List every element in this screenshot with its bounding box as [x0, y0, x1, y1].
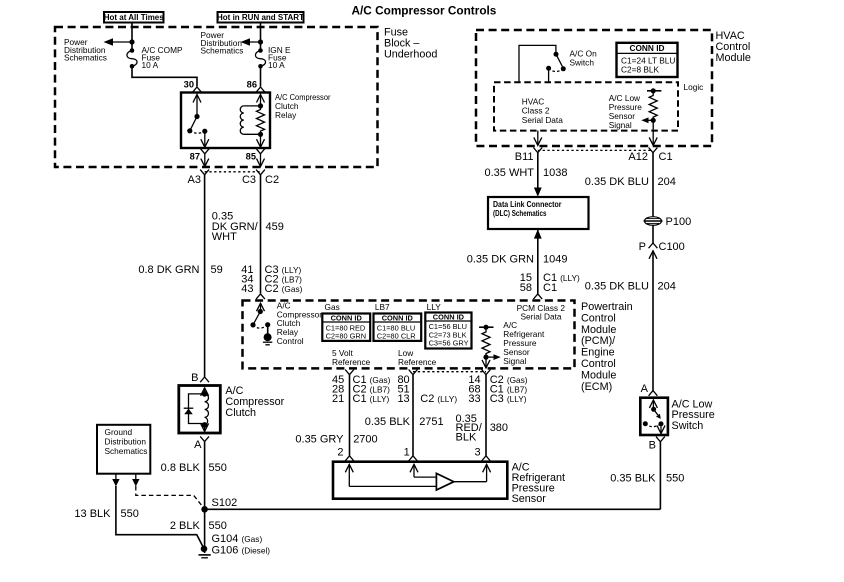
svg-text:C3=56 GRY: C3=56 GRY — [429, 338, 469, 347]
HVAC CONN ID box — [617, 43, 678, 77]
svg-text:Control: Control — [581, 312, 616, 324]
wire: S102 down to ground — [204, 509, 206, 553]
wire: serial data to HVAC pin B11 — [534, 131, 542, 146]
svg-text:0.35 DK GRN: 0.35 DK GRN — [467, 254, 534, 266]
connector fork at sensor pin 3 — [482, 456, 491, 461]
label: HVAC Class 2 Serial Data — [522, 96, 563, 125]
svg-text:550: 550 — [209, 520, 227, 532]
svg-text:A3: A3 — [188, 174, 201, 186]
clutch clamp diode branch — [184, 394, 205, 424]
connector fork A3 — [200, 170, 209, 175]
sensor pin 1 arrow inside — [410, 464, 418, 477]
connector fork at PCM class 2 pin — [533, 294, 542, 299]
clutch pin A arrow inside — [201, 423, 209, 431]
svg-text:BLK: BLK — [456, 431, 477, 443]
svg-text:59: 59 — [211, 264, 223, 276]
label: Power Distribution Schematics (left) — [64, 37, 107, 63]
svg-text:Distribution: Distribution — [105, 437, 147, 447]
wire: resistor to HVAC pin A12 — [649, 120, 657, 145]
svg-text:Control: Control — [716, 41, 751, 53]
fuse: A/C COMP Fuse 10 A — [127, 48, 137, 68]
label: A/C Compressor Clutch Relay Control — [277, 300, 322, 346]
svg-text:B: B — [649, 440, 656, 452]
clutch coil — [202, 391, 209, 428]
svg-text:Module: Module — [716, 52, 751, 64]
svg-text:Serial Data: Serial Data — [522, 115, 563, 125]
wire: pin 85 to fuse block edge — [257, 154, 265, 167]
svg-text:G106 (Diesel): G106 (Diesel) — [212, 545, 271, 557]
connector fork at relay pin 86 — [256, 87, 265, 92]
low pressure switch blade — [643, 407, 664, 427]
svg-text:1: 1 — [404, 447, 410, 459]
PCM/ECM dashed box — [243, 301, 575, 369]
svg-text:0.35 BLK: 0.35 BLK — [365, 416, 411, 428]
svg-text:Sensor: Sensor — [512, 493, 547, 505]
op-amp symbol in sensor — [436, 473, 453, 490]
wire label 0.35 DK GRN/WHT — [212, 211, 259, 244]
label: IGN E Fuse 10 A — [268, 45, 291, 70]
label: Powertrain Control Module (PCM)/ Engine Control Module (ECM) — [581, 301, 633, 393]
dashed wire: ground reference to S102 — [136, 486, 204, 509]
svg-text:0.8 DK GRN: 0.8 DK GRN — [138, 264, 199, 276]
connector fork at PCM 5 volt reference pin — [345, 370, 354, 375]
junction dot at left power feed — [129, 39, 134, 44]
svg-text:Relay: Relay — [275, 110, 297, 120]
wire: IGN E fuse to relay pin 86 — [260, 66, 262, 87]
svg-text:WHT: WHT — [212, 231, 237, 243]
wire: 5 volt reference to sensor pin 2 — [349, 375, 351, 456]
svg-text:(DLC) Schematics: (DLC) Schematics — [493, 208, 547, 218]
relay coil to pin 85 arrow — [257, 134, 265, 147]
svg-text:Module: Module — [581, 324, 616, 336]
arrow to Power Distribution Schematics (right) — [241, 38, 261, 46]
svg-text:B11: B11 — [515, 151, 534, 163]
wire: A12 down to P100 — [652, 153, 654, 218]
svg-text:Schematics: Schematics — [105, 446, 148, 456]
pass-through grommet P100 — [644, 217, 663, 226]
ground symbol G106 — [199, 555, 211, 558]
svg-text:A/C: A/C — [225, 385, 243, 397]
svg-text:3: 3 — [474, 447, 480, 459]
label: A/C COMP Fuse 10 A — [142, 45, 183, 70]
relay switch to pin 87 — [201, 131, 209, 147]
DLC box: Data Link Connector (DLC) Schematics — [488, 197, 589, 229]
wire: A3 down to clutch B — [204, 175, 206, 377]
connector fork at PCM pin 43 — [256, 294, 265, 299]
label: A/C On Switch — [570, 49, 598, 68]
pin labels 15 C1 (LLY) / 58 C1 — [520, 272, 580, 294]
label: A/C Low Pressure Switch — [672, 398, 715, 432]
connector fork at relay pin 30 — [193, 87, 202, 92]
svg-text:C3 (LLY): C3 (LLY) — [490, 393, 527, 405]
svg-text:1049: 1049 — [543, 254, 567, 266]
label: PCM Class 2 Serial Data — [517, 303, 566, 322]
wire: signal to sensor pin 3 — [485, 375, 487, 456]
connector fork at pin A12 — [649, 148, 658, 153]
arrow: A/C low pressure sensor signal into logic — [641, 117, 653, 123]
svg-text:2 BLK: 2 BLK — [170, 520, 201, 532]
wire: switch B down to ground bus — [659, 442, 661, 510]
resistor: PCM sensor signal pull-up — [479, 325, 493, 360]
svg-text:Ground: Ground — [105, 427, 133, 437]
svg-text:380: 380 — [490, 422, 508, 434]
sensor internal wiring — [349, 477, 486, 486]
svg-text:C1 (LLY): C1 (LLY) — [353, 393, 390, 405]
svg-text:C2: C2 — [265, 174, 279, 186]
switch pin A arrow inside — [649, 400, 657, 409]
relay: A/C Compressor Clutch Relay box — [181, 93, 270, 149]
sensor pin 2 arrow inside — [345, 464, 353, 486]
svg-text:204: 204 — [658, 280, 676, 292]
svg-text:2700: 2700 — [353, 433, 377, 445]
svg-text:13: 13 — [397, 393, 409, 405]
label: Low Reference — [398, 348, 437, 367]
svg-text:30: 30 — [184, 79, 194, 89]
connector fork at PCM low reference pin — [409, 370, 418, 375]
svg-text:Reference: Reference — [398, 357, 437, 367]
label: Fuse Block - Underhood — [384, 27, 437, 61]
inline connector dashed link A3 to C3 — [205, 171, 261, 173]
label: A/C Compressor Clutch Relay — [275, 92, 331, 120]
svg-text:0.35 WHT: 0.35 WHT — [484, 167, 534, 179]
svg-text:Logic: Logic — [684, 82, 704, 92]
connector fork at clutch pin A — [200, 436, 209, 441]
resistor: HVAC low pressure input pull-up — [647, 88, 661, 123]
svg-text:(ECM): (ECM) — [581, 381, 612, 393]
svg-text:204: 204 — [658, 176, 676, 188]
svg-text:13 BLK: 13 BLK — [74, 508, 111, 520]
fuse block module dashed box — [55, 27, 378, 167]
svg-text:43: 43 — [241, 283, 253, 295]
svg-text:Underhood: Underhood — [384, 49, 437, 61]
relay coil — [240, 103, 263, 137]
svg-text:0.35 DK BLU: 0.35 DK BLU — [585, 176, 649, 188]
CONN ID box LB7 — [374, 313, 422, 341]
wire: C100 down to A/C low pressure switch A — [652, 251, 654, 391]
wire: low reference to sensor pin 1 — [412, 375, 414, 456]
svg-text:Hot at All Times: Hot at All Times — [104, 13, 165, 22]
CONN ID box LLY — [425, 312, 471, 348]
switch: A/C On Switch — [519, 45, 566, 82]
label box: Hot at All Times — [104, 12, 165, 23]
svg-text:G104 (Gas): G104 (Gas) — [212, 533, 263, 545]
svg-text:Engine: Engine — [581, 347, 615, 359]
connector C100 mating arrow — [649, 251, 657, 259]
pin labels 80 / 51 / 13 C2 (LLY) — [397, 374, 457, 405]
svg-text:Gas: Gas — [325, 302, 340, 312]
splice S102 — [201, 506, 208, 513]
svg-text:Control: Control — [581, 358, 616, 370]
svg-text:C2=8 BLK: C2=8 BLK — [621, 64, 660, 74]
connector fork at C100 (pin P) — [649, 243, 658, 248]
svg-text:Clutch: Clutch — [225, 407, 256, 419]
connector fork at PCM signal pin — [482, 370, 491, 375]
svg-text:Signal: Signal — [503, 356, 526, 366]
connector fork C3/C2 — [256, 170, 265, 175]
A/C Compressor Clutch box — [179, 386, 221, 434]
connector fork at switch pin A — [649, 391, 658, 396]
svg-text:C2=80 CLR: C2=80 CLR — [377, 332, 416, 341]
svg-text:P100: P100 — [666, 216, 692, 228]
svg-text:550: 550 — [209, 462, 227, 474]
Logic dashed box — [494, 82, 678, 130]
svg-text:LLY: LLY — [427, 302, 442, 312]
inline connector dashed link low ref to signal — [413, 371, 486, 373]
inline connector dashed link B11 to A12 — [538, 149, 653, 151]
svg-text:A12: A12 — [628, 151, 648, 163]
svg-text:HVAC: HVAC — [716, 30, 745, 42]
svg-text:CONN ID: CONN ID — [433, 312, 465, 321]
connector fork at pin B11 — [533, 148, 542, 153]
svg-text:33: 33 — [468, 393, 480, 405]
label: A/C Refrigerant Pressure Sensor Signal — [503, 320, 545, 366]
label: A/C Compressor Clutch — [225, 385, 284, 419]
svg-text:Powertrain: Powertrain — [581, 301, 633, 313]
svg-text:Signal: Signal — [609, 120, 632, 130]
arrow to Power Distribution Schematics (left) — [104, 38, 133, 46]
connector fork at sensor pin 1 — [409, 456, 418, 461]
wire: PCM class 2 serial data up to DLC — [534, 229, 542, 294]
svg-text:C100: C100 — [659, 241, 685, 253]
wire: pin 87 to fuse block edge — [201, 154, 209, 167]
svg-text:Compressor: Compressor — [225, 396, 284, 408]
svg-text:Reference: Reference — [332, 357, 371, 367]
wire: C2 down to PCM pin 43 — [260, 175, 262, 294]
ground reference arrow (right) — [132, 474, 139, 487]
fuse: IGN E Fuse 10 A — [255, 48, 265, 68]
clutch pin B arrow inside — [201, 388, 209, 396]
junction dot at G104/G106 — [201, 546, 208, 553]
svg-text:LB7: LB7 — [375, 302, 390, 312]
svg-text:21: 21 — [332, 393, 344, 405]
svg-text:459: 459 — [266, 221, 284, 233]
svg-text:Serial Data: Serial Data — [521, 312, 562, 322]
connector fork at sensor pin 2 — [345, 456, 354, 461]
wire: fuse to relay pin 30 — [132, 66, 197, 87]
connector fork at pin 87 — [200, 149, 209, 154]
junction dot at right power feed — [258, 39, 263, 44]
label: A/C Low Pressure Sensor Signal — [609, 93, 643, 130]
svg-text:Module: Module — [581, 369, 616, 381]
svg-text:86: 86 — [247, 79, 257, 89]
switch pin B arrow inside — [657, 424, 665, 434]
A/C Refrigerant Pressure Sensor box — [333, 462, 507, 499]
svg-text:A: A — [641, 383, 649, 395]
HVAC Control Module dashed box — [476, 30, 712, 146]
svg-text:CONN ID: CONN ID — [629, 43, 664, 53]
svg-text:58: 58 — [520, 282, 532, 294]
svg-text:1038: 1038 — [543, 167, 567, 179]
svg-text:0.35 GRY: 0.35 GRY — [295, 433, 344, 445]
svg-text:0.35 DK BLU: 0.35 DK BLU — [585, 280, 649, 292]
svg-text:P: P — [639, 241, 646, 253]
pin labels 14 C2 (Gas) / 68 C1 (LB7) / 33 C3 (LLY) — [468, 374, 527, 405]
svg-text:550: 550 — [121, 508, 139, 520]
svg-text:2751: 2751 — [419, 416, 443, 428]
svg-text:550: 550 — [666, 473, 684, 485]
svg-text:C2 (LLY): C2 (LLY) — [420, 393, 457, 405]
arrow: refrigerant pressure sensor signal (right) — [486, 354, 501, 360]
pin labels 41 C3 (LLY) / 34 C2 (LB7) / 43 C2 (Gas) — [241, 264, 302, 295]
svg-text:B: B — [191, 372, 198, 384]
svg-text:(PCM)/: (PCM)/ — [581, 335, 615, 347]
svg-text:Switch: Switch — [570, 58, 595, 68]
svg-text:Switch: Switch — [672, 420, 704, 432]
svg-text:2: 2 — [337, 447, 343, 459]
connector fork at pin 85 — [256, 149, 265, 154]
connector fork at clutch pin B — [200, 377, 209, 382]
svg-text:A: A — [194, 439, 202, 451]
wire: B11 down to DLC box — [534, 153, 542, 197]
svg-text:10 A: 10 A — [142, 60, 159, 70]
label: A/C Refrigerant Pressure Sensor — [512, 461, 565, 505]
svg-text:C2 (Gas): C2 (Gas) — [265, 283, 303, 295]
svg-text:CONN ID: CONN ID — [382, 313, 414, 322]
svg-text:0.8 BLK: 0.8 BLK — [161, 462, 201, 474]
svg-text:Hot in RUN and START: Hot in RUN and START — [217, 13, 304, 22]
wire: ground reference to G104 junction — [116, 486, 204, 549]
label: 5 Volt Reference — [332, 348, 371, 367]
wire: P100 to connector C100 — [652, 225, 654, 243]
ground reference arrow (left) — [112, 474, 119, 487]
Ground Distribution Schematics box — [97, 425, 150, 474]
svg-text:10 A: 10 A — [268, 60, 285, 70]
CONN ID box Gas — [322, 313, 370, 341]
svg-text:C3: C3 — [242, 174, 256, 186]
svg-text:85: 85 — [246, 151, 256, 161]
relay pin 30 arrow inside — [193, 95, 201, 117]
pin labels 45 C1 (Gas) / 28 C2 (LB7) / 21 C1 (LLY) — [332, 374, 391, 405]
A/C Low Pressure Switch box — [640, 398, 668, 435]
svg-text:C1: C1 — [543, 282, 557, 294]
connector fork at switch pin B — [656, 437, 665, 442]
svg-text:C2=80 GRN: C2=80 GRN — [326, 332, 366, 341]
svg-text:A/C Compressor Controls: A/C Compressor Controls — [352, 3, 497, 17]
relay coil resistor — [257, 106, 265, 134]
wire: resistor to PCM signal pin — [482, 357, 490, 368]
ground bus wire S102 to low pressure switch — [205, 508, 661, 510]
label: HVAC Control Module — [716, 30, 751, 64]
wire: Hot at All Times down to A/C COMP fuse — [131, 23, 133, 51]
svg-text:Schematics: Schematics — [201, 46, 244, 56]
sensor pin 3 arrow inside — [483, 464, 491, 481]
svg-text:S102: S102 — [212, 497, 238, 509]
wire label 0.35 RED/BLK — [456, 413, 483, 443]
PCM relay control driver switch — [250, 303, 272, 345]
relay switch blade — [187, 114, 207, 134]
svg-text:0.35 BLK: 0.35 BLK — [610, 473, 656, 485]
svg-text:87: 87 — [190, 151, 200, 161]
svg-text:CONN ID: CONN ID — [331, 313, 363, 322]
wire: clutch A down to S102 — [204, 442, 206, 510]
label box: Hot in RUN and START — [217, 12, 304, 23]
svg-text:C1: C1 — [659, 151, 673, 163]
relay pin 86 arrow inside — [257, 95, 265, 106]
wire: Hot in RUN and START down to IGN E fuse — [260, 23, 262, 51]
label: Power Distribution Schematics (right) — [201, 30, 244, 56]
svg-text:Schematics: Schematics — [64, 53, 107, 63]
svg-text:Control: Control — [277, 336, 304, 346]
